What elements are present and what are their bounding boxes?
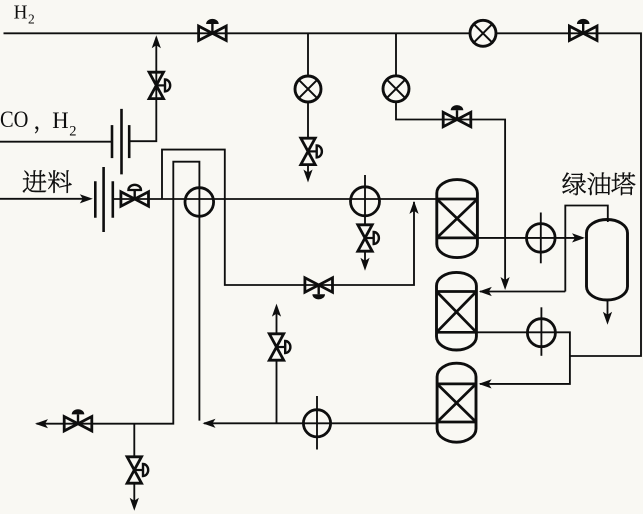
- pipe reactor R1 outlet to tower: [477, 237, 582, 239]
- arrow up vent: [272, 304, 281, 317]
- pipe reactor R2 outlet: [476, 332, 570, 384]
- arrow left into riser: [203, 419, 216, 428]
- arrow left into reactor R2: [479, 287, 492, 296]
- pipe CO,H2 inlet: [0, 141, 111, 143]
- label H2 top-left: [14, 1, 35, 26]
- pipe tower overhead: [565, 206, 608, 292]
- pipe main process line: [114, 198, 437, 200]
- valve V9 vent riser: [269, 334, 290, 360]
- reactor R2: [437, 272, 477, 350]
- pump P2 shaft line: [540, 213, 542, 264]
- pipe feed inlet: [0, 198, 89, 200]
- mixer/pump C1: [185, 188, 214, 217]
- arrow vent 1 down: [303, 170, 312, 183]
- pipe drain drop: [133, 424, 135, 507]
- valve V7 bypass: [305, 278, 333, 300]
- arrow left into reactor R3: [479, 379, 492, 388]
- valve V6 H2 makeup: [443, 105, 471, 127]
- label feed 进料: [23, 170, 72, 193]
- pipe H2 makeup branch 2: [396, 33, 505, 286]
- pipe vent riser: [276, 308, 278, 424]
- valve V5 feed: [121, 185, 149, 206]
- pipe H2 header: [4, 33, 642, 356]
- pump P4 shaft line: [316, 396, 318, 450]
- label green oil tower 绿油塔: [562, 173, 635, 196]
- valve V3 on riser: [149, 72, 170, 98]
- arrow down drain: [130, 498, 139, 511]
- reactor R3: [437, 363, 476, 442]
- svg-text:CO: CO: [0, 107, 28, 133]
- mixer M1 bars (CO,H2): [112, 109, 129, 175]
- arrow left drain out: [35, 419, 48, 428]
- svg-text:2: 2: [69, 123, 76, 139]
- svg-text:H: H: [14, 1, 28, 23]
- mixer M2 bars (feed): [95, 167, 113, 232]
- rotameter FI2: [383, 76, 409, 102]
- pipe pump return line: [204, 422, 437, 424]
- pump P3 shaft line: [540, 307, 542, 356]
- pipe exchanger E2 vertical: [364, 175, 366, 267]
- arrow down tower bottoms: [603, 312, 612, 325]
- pipe into reactor R2: [480, 291, 565, 293]
- arrow up bypass return: [409, 201, 418, 214]
- label CO,H2: [0, 107, 77, 140]
- pipe bypass loop: [162, 150, 414, 285]
- arrow right into tower: [572, 233, 585, 242]
- valve V8 below exchanger E2: [358, 225, 379, 251]
- arrow down into separator feed: [501, 277, 510, 290]
- pump P5: [303, 410, 330, 437]
- pipe vent branch 1: [307, 33, 309, 178]
- rotameter FI1: [295, 76, 321, 102]
- valve V1 on H2 header: [199, 19, 227, 41]
- arrow down below valve V8: [360, 258, 369, 271]
- valve V10 drain: [64, 409, 92, 431]
- pipe tower bottoms: [607, 300, 609, 321]
- reactor R1: [437, 180, 478, 258]
- tower T1 (green oil tower): [587, 220, 628, 301]
- exchanger C2: [351, 187, 380, 216]
- pump P3: [527, 319, 555, 347]
- pump P2: [527, 224, 556, 253]
- valve V2 on H2 header right: [569, 19, 597, 41]
- pipe mixer riser to H2 header: [129, 38, 156, 142]
- valve V11 drain drop: [127, 457, 148, 483]
- rotameter FI3: [470, 20, 496, 46]
- arrow up into H2 header: [152, 35, 161, 48]
- pipe recycle loop: [37, 162, 200, 424]
- svg-text:H: H: [52, 108, 68, 134]
- arrow feed right: [80, 194, 93, 203]
- svg-text:2: 2: [28, 11, 35, 26]
- valve V4 vent branch: [301, 138, 322, 164]
